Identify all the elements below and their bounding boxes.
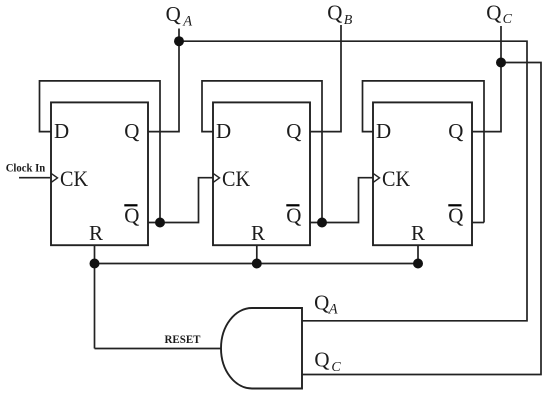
svg-text:CK: CK — [222, 166, 250, 191]
junction dot reset bus 3 — [413, 259, 423, 269]
svg-text:C: C — [503, 12, 513, 27]
wire FF1 Q output to node QA — [148, 29, 179, 132]
wire node QC to AND gate bottom input — [302, 63, 541, 375]
svg-text:R: R — [411, 221, 425, 245]
svg-text:D: D — [216, 119, 231, 143]
svg-text:D: D — [376, 119, 391, 143]
wire FF3 Qbar stub — [472, 222, 484, 224]
flip-flop FF3 box — [373, 102, 472, 245]
svg-text:R: R — [251, 221, 265, 245]
svg-text:D: D — [54, 119, 69, 143]
svg-text:A: A — [182, 14, 192, 30]
svg-text:Q: Q — [448, 204, 463, 228]
flip-flop FF1 box — [51, 102, 148, 245]
wire AND gate output RESET to bus — [94, 264, 96, 349]
svg-text:Clock In: Clock In — [6, 163, 46, 175]
wire FF1 R stub — [94, 245, 96, 263]
clock edge chevron FF2 — [213, 173, 220, 182]
flip-flop FF2 box — [213, 102, 310, 245]
junction dot node QC — [496, 58, 506, 68]
junction dot reset bus 2 — [252, 259, 262, 269]
svg-text:CK: CK — [382, 166, 410, 191]
svg-text:R: R — [89, 221, 103, 245]
junction dot FF1 Qbar — [155, 218, 165, 228]
and-gate U1 (mirrored, points left) — [221, 308, 302, 389]
svg-text:Q: Q — [124, 204, 139, 228]
wire FF2 R stub — [256, 245, 258, 263]
svg-text:C: C — [331, 360, 341, 375]
svg-text:Q: Q — [448, 119, 463, 143]
clock edge chevron FF3 — [373, 173, 380, 182]
clock edge chevron FF1 — [51, 173, 58, 182]
overline Qbar FF3 — [448, 204, 461, 206]
junction dot reset bus 1 — [90, 259, 100, 269]
svg-text:Q: Q — [486, 1, 501, 25]
wire reset bus — [95, 263, 419, 265]
svg-text:A: A — [328, 302, 338, 318]
junction dot FF2 Qbar — [317, 218, 327, 228]
svg-text:Q: Q — [314, 347, 329, 371]
svg-text:B: B — [344, 13, 353, 28]
svg-text:Q: Q — [166, 2, 181, 26]
wire RESET horizontal — [95, 348, 222, 350]
wire node QA to AND gate top input — [179, 41, 527, 321]
svg-text:Q: Q — [286, 204, 301, 228]
svg-text:Q: Q — [124, 119, 139, 143]
wire FF3 R stub — [417, 245, 419, 263]
wire FF2 feedback Qbar to D — [202, 81, 322, 223]
overline Qbar FF2 — [286, 204, 299, 206]
wire FF2 Q output to label QB — [310, 25, 341, 132]
svg-text:Q: Q — [327, 1, 342, 25]
svg-text:Q: Q — [314, 290, 329, 314]
svg-text:RESET: RESET — [165, 334, 201, 346]
wire FF1 Qbar to FF2 CK — [148, 178, 213, 223]
junction dot node QA — [174, 36, 184, 46]
svg-text:CK: CK — [60, 166, 88, 191]
overline Qbar FF1 — [124, 204, 137, 206]
wire Clock In to FF1 CK — [19, 177, 50, 179]
svg-text:Q: Q — [286, 119, 301, 143]
wire FF1 feedback Qbar to D — [40, 81, 161, 223]
wire FF2 Qbar to FF3 CK — [310, 178, 373, 223]
wire FF3 feedback Qbar to D — [363, 81, 485, 223]
wire FF3 Q output to label QC — [472, 26, 501, 132]
